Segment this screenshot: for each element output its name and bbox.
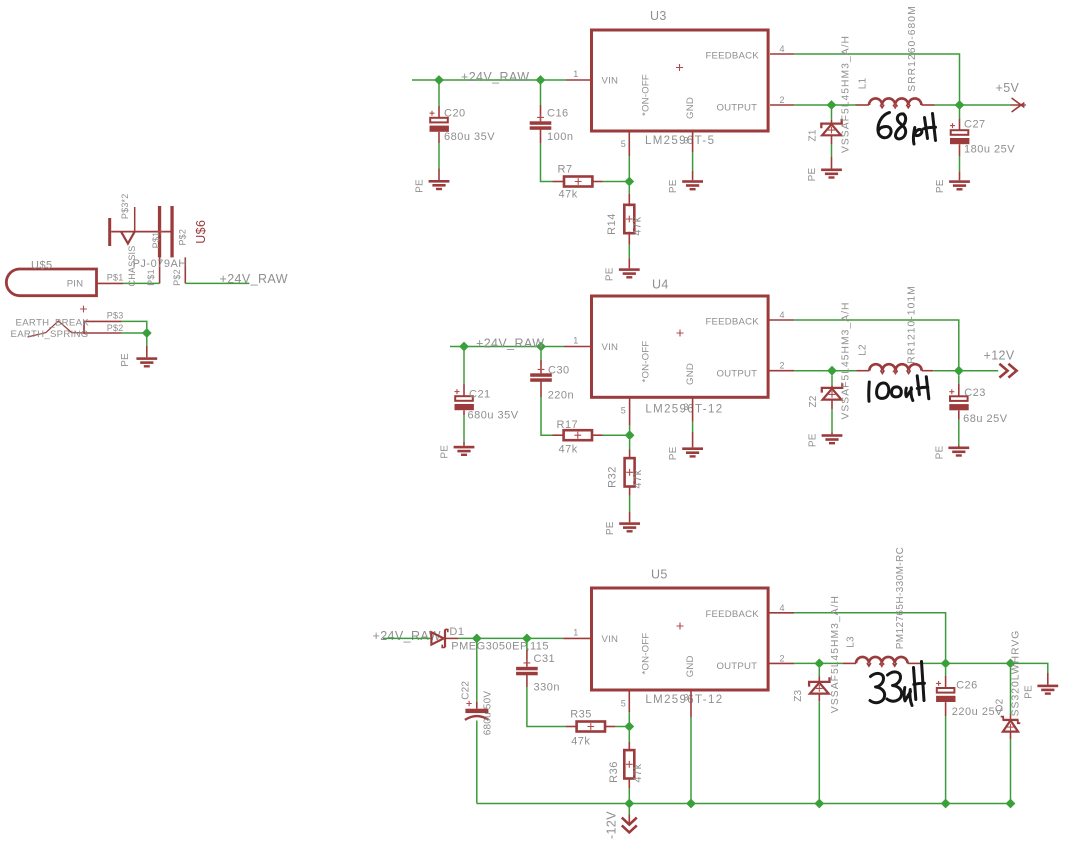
svg-text:*ON-OFF: *ON-OFF xyxy=(640,633,651,675)
op-amp U5 pin 1 VIN lead xyxy=(563,627,590,638)
wire OUTPUT net U5 xyxy=(770,653,844,663)
node junction C31/+24V xyxy=(522,634,532,644)
svg-text:R14: R14 xyxy=(606,213,618,235)
svg-text:RR1210-101M: RR1210-101M xyxy=(907,285,918,364)
capacitor C27 xyxy=(950,109,1015,180)
wire +24V_RAW input rail U3 xyxy=(412,79,566,81)
svg-text:47k: 47k xyxy=(571,735,590,747)
capacitor C20 xyxy=(430,84,496,180)
node junction D2/output xyxy=(1006,659,1016,669)
ground PE (Z2) xyxy=(807,433,842,447)
svg-text:U$6: U$6 xyxy=(194,220,208,244)
svg-text:47k: 47k xyxy=(559,189,578,201)
svg-text:P$1: P$1 xyxy=(107,272,124,282)
svg-text:L1: L1 xyxy=(858,78,869,90)
op-amp U3 pin 1 VIN lead xyxy=(566,69,590,80)
svg-text:PE: PE xyxy=(934,446,945,460)
ground PE (output right) xyxy=(1023,685,1058,699)
supply +5V arrow xyxy=(996,81,1026,112)
svg-text:U3: U3 xyxy=(650,9,667,23)
inductor L3 xyxy=(843,547,920,667)
svg-text:4: 4 xyxy=(780,310,785,320)
svg-text:EARTH_SPRING: EARTH_SPRING xyxy=(11,329,89,340)
svg-text:VIN: VIN xyxy=(602,634,619,645)
svg-text:P$2: P$2 xyxy=(107,323,124,333)
svg-text:220n: 220n xyxy=(548,390,574,402)
resistor R14 47k xyxy=(606,186,644,268)
svg-text:PE: PE xyxy=(605,267,616,281)
svg-text:C22: C22 xyxy=(460,681,471,700)
wire jack P$2 to +24V_RAW xyxy=(185,282,249,284)
wire earth P$2 xyxy=(122,332,147,334)
capacitor C23 xyxy=(949,375,1007,446)
svg-text:L2: L2 xyxy=(857,344,868,356)
node junction rail/Z3 xyxy=(814,799,824,809)
svg-text:*ON-OFF: *ON-OFF xyxy=(640,74,651,116)
capacitor C31 330n xyxy=(516,642,577,726)
node junction rail/D2 xyxy=(1006,799,1016,809)
ground PE (R32) xyxy=(605,521,640,535)
svg-text:P$1: P$1 xyxy=(151,232,161,249)
wire earth to ground xyxy=(146,333,148,357)
dc jack U$6 PJ-079AH xyxy=(108,194,208,287)
svg-text:PE: PE xyxy=(1023,685,1034,699)
svg-text:GND: GND xyxy=(685,97,696,119)
svg-text:C30: C30 xyxy=(548,365,570,377)
svg-text:P$3*2: P$3*2 xyxy=(120,194,130,220)
svg-text:P$1: P$1 xyxy=(146,269,156,286)
svg-text:47k: 47k xyxy=(559,443,578,455)
svg-text:PE: PE xyxy=(120,353,131,367)
svg-text:LM2596T-5: LM2596T-5 xyxy=(645,135,715,147)
svg-text:PIN: PIN xyxy=(67,279,84,290)
svg-text:+24V_RAW: +24V_RAW xyxy=(461,70,529,84)
resistor R7 47k xyxy=(558,164,630,201)
node junction C21/+24V_RAW xyxy=(459,342,469,352)
zener Z1 xyxy=(808,35,852,169)
ground PE (C20) xyxy=(415,179,450,193)
svg-text:+24V_RAW: +24V_RAW xyxy=(220,272,288,286)
svg-text:PE: PE xyxy=(935,179,946,193)
svg-text:+12V: +12V xyxy=(984,349,1015,363)
svg-text:+24V_RAW: +24V_RAW xyxy=(476,337,544,351)
svg-text:OUTPUT: OUTPUT xyxy=(717,369,758,380)
svg-text:PM12765H-330M-RC: PM12765H-330M-RC xyxy=(895,547,906,650)
node junction earth xyxy=(142,328,152,338)
wire FEEDBACK net U4 xyxy=(770,310,959,371)
svg-text:VIN: VIN xyxy=(602,342,619,353)
svg-text:1: 1 xyxy=(573,336,578,346)
wire +24V_RAW to D1 xyxy=(383,637,431,639)
svg-text:680u 50V: 680u 50V xyxy=(483,691,494,736)
svg-text:R32: R32 xyxy=(606,466,618,488)
wire L3 to output nodes xyxy=(920,663,1048,684)
svg-text:C31: C31 xyxy=(534,653,556,665)
svg-text:GND: GND xyxy=(685,363,696,385)
node junction R7/R14/ON-OFF xyxy=(624,177,634,187)
wire -12V bottom rail xyxy=(477,803,1011,805)
svg-text:LM2596T-12: LM2596T-12 xyxy=(645,694,723,706)
svg-text:PMEG3050EP,115: PMEG3050EP,115 xyxy=(451,641,549,653)
svg-text:C21: C21 xyxy=(469,389,491,401)
connector U$5 pin P$1 lead xyxy=(97,272,124,283)
op-amp U4 LM2596T-12 body xyxy=(592,278,769,416)
zener Z2 xyxy=(808,301,852,434)
node junction C20/+24V_RAW xyxy=(434,75,444,85)
connector U$5 PIN xyxy=(6,259,96,295)
svg-text:PJ-079AH: PJ-079AH xyxy=(133,258,187,270)
op-amp U5 pin 5 ON-OFF lead xyxy=(621,692,630,727)
svg-text:Z2: Z2 xyxy=(808,395,819,407)
svg-text:OUTPUT: OUTPUT xyxy=(717,661,758,672)
ground PE (C23) xyxy=(934,446,969,460)
svg-text:5: 5 xyxy=(621,406,626,416)
svg-text:R36: R36 xyxy=(608,761,620,783)
ground PE (U3 GND) xyxy=(668,179,703,193)
inductor L2 xyxy=(857,285,934,374)
svg-text:FEEDBACK: FEEDBACK xyxy=(706,51,760,62)
svg-text:EARTH_BREAK: EARTH_BREAK xyxy=(16,317,90,328)
svg-text:2: 2 xyxy=(780,653,785,663)
wire +24V_RAW input rail U4 xyxy=(450,346,564,348)
svg-text:LM2596T-12: LM2596T-12 xyxy=(645,404,723,416)
svg-text:PE: PE xyxy=(807,168,818,182)
svg-text:P$2: P$2 xyxy=(177,229,187,246)
svg-text:2: 2 xyxy=(780,95,785,105)
capacitor C22 680u 50V xyxy=(460,642,493,803)
node junction C30/+24V_RAW xyxy=(536,342,546,352)
resistor R17 47k xyxy=(557,419,630,456)
svg-text:PE: PE xyxy=(605,521,616,535)
wire earth P$3 xyxy=(122,321,147,333)
op-amp U5 pin 3 GND lead to -12V rail xyxy=(690,692,692,804)
svg-text:180u 25V: 180u 25V xyxy=(964,144,1015,156)
svg-text:C26: C26 xyxy=(956,680,978,692)
svg-text:47k: 47k xyxy=(632,763,644,782)
node junction C23/+12V xyxy=(954,366,964,376)
handwritten 68uH xyxy=(878,113,936,145)
supply +12V arrow xyxy=(984,349,1017,378)
svg-text:GND: GND xyxy=(685,655,696,677)
op-amp U4 pin 3 GND lead xyxy=(692,399,694,448)
svg-text:PE: PE xyxy=(668,179,679,193)
svg-text:680u 35V: 680u 35V xyxy=(444,131,495,143)
ground PE (C21) xyxy=(440,445,475,459)
node junction R35/R36/ON-OFF xyxy=(624,722,634,732)
svg-text:D2: D2 xyxy=(995,698,1006,711)
op-amp U4 pin 5 ON-OFF lead xyxy=(621,399,630,436)
svg-text:PE: PE xyxy=(440,445,451,459)
net label +24V_RAW (input) xyxy=(220,272,288,286)
svg-text:U4: U4 xyxy=(652,278,669,292)
net label +24V_RAW (U4) xyxy=(476,337,544,351)
op-amp U4 pin 1 VIN lead xyxy=(564,336,590,347)
net label +24V_RAW (U3) xyxy=(461,70,529,84)
node junction Z2/output xyxy=(827,366,837,376)
svg-text:FEEDBACK: FEEDBACK xyxy=(706,609,760,620)
svg-text:R7: R7 xyxy=(558,164,573,176)
svg-text:C23: C23 xyxy=(964,387,986,399)
handwritten 33uH xyxy=(870,662,924,706)
wire OUTPUT net U4 xyxy=(770,361,857,371)
ground PE (Z1) xyxy=(807,168,842,182)
svg-text:-12V: -12V xyxy=(605,811,619,839)
ground PE (C27) xyxy=(935,179,970,193)
node junction rail/R36 xyxy=(624,799,634,809)
svg-text:C27: C27 xyxy=(964,119,986,131)
node junction Z1/output xyxy=(827,100,837,110)
capacitor C26 220u 25V xyxy=(936,668,1003,804)
node junction rail/U5 GND xyxy=(686,799,696,809)
svg-text:VSSAF5L45HM3_A/H: VSSAF5L45HM3_A/H xyxy=(830,595,841,713)
ground PE (R14) xyxy=(605,267,640,281)
svg-text:SRR1260-680M: SRR1260-680M xyxy=(907,5,918,91)
svg-text:PE: PE xyxy=(415,179,426,193)
capacitor C21 xyxy=(455,351,519,446)
svg-text:OUTPUT: OUTPUT xyxy=(717,103,758,114)
node junction C22/+24V xyxy=(472,634,482,644)
wire FEEDBACK net U3 xyxy=(770,44,960,105)
resistor R36 47k xyxy=(608,731,644,804)
svg-text:4: 4 xyxy=(780,603,785,613)
inductor L1 xyxy=(856,5,935,109)
svg-text:U5: U5 xyxy=(651,568,668,582)
svg-text:1: 1 xyxy=(573,69,578,79)
svg-text:Z1: Z1 xyxy=(808,129,819,141)
svg-text:1: 1 xyxy=(573,627,578,637)
op-amp U3 pin 3 GND lead xyxy=(692,133,694,181)
wire U$5 to jack P$1 xyxy=(123,282,160,284)
earth contact U$5 P$3/P$2 xyxy=(11,306,124,340)
net label +24V_RAW (U5) xyxy=(373,629,441,643)
svg-text:VIN: VIN xyxy=(602,76,619,87)
svg-text:P$2: P$2 xyxy=(172,269,182,286)
svg-text:PE: PE xyxy=(668,446,679,460)
svg-text:PE: PE xyxy=(807,433,818,447)
svg-text:2: 2 xyxy=(780,361,785,371)
svg-text:L3: L3 xyxy=(846,636,857,648)
node junction R17/R32/ON-OFF xyxy=(625,430,635,440)
node junction C27/+5V xyxy=(955,100,965,110)
svg-text:+5V: +5V xyxy=(996,81,1020,95)
wire D1 to VIN U5 xyxy=(458,637,563,639)
zener Z3 xyxy=(793,595,841,804)
ground PE (U4 GND) xyxy=(668,446,703,460)
diode D2 SS320LWHRVG xyxy=(995,630,1022,804)
op-amp U3 pin 5 ON-OFF lead xyxy=(621,133,630,182)
svg-text:P$3: P$3 xyxy=(107,310,124,320)
wire OUTPUT net U3 xyxy=(770,95,856,105)
capacitor C16 xyxy=(530,84,574,182)
svg-text:68u 25V: 68u 25V xyxy=(963,413,1008,425)
svg-text:C16: C16 xyxy=(547,108,569,120)
node junction C16/+24V_RAW xyxy=(536,75,546,85)
resistor R32 47k xyxy=(606,440,644,523)
svg-text:Z3: Z3 xyxy=(793,689,804,701)
resistor R35 47k xyxy=(570,709,629,748)
wire L2 to +12V node xyxy=(933,370,998,372)
svg-text:D1: D1 xyxy=(449,626,464,638)
svg-text:5: 5 xyxy=(621,699,626,709)
handwritten 100uH xyxy=(869,376,929,402)
svg-text:VSSAF5L45HM3_A/H: VSSAF5L45HM3_A/H xyxy=(841,301,852,419)
node junction C26/output xyxy=(941,659,951,669)
op-amp U3 LM2596T-5 body xyxy=(592,9,769,147)
wire FEEDBACK net U5 xyxy=(770,603,946,664)
ground PE (earth) xyxy=(120,353,157,367)
node junction rail/C26 xyxy=(941,799,951,809)
wire L1 to +5V node xyxy=(935,104,1012,106)
svg-text:47k: 47k xyxy=(632,216,644,235)
svg-text:R35: R35 xyxy=(570,709,592,721)
svg-text:VSSAF5L45HM3_A/H: VSSAF5L45HM3_A/H xyxy=(841,35,852,153)
svg-text:C20: C20 xyxy=(444,108,466,120)
diode D1 PMEG3050EP,115 xyxy=(431,626,549,653)
node junction Z3/output xyxy=(814,659,824,669)
svg-text:4: 4 xyxy=(780,44,785,54)
svg-text:5: 5 xyxy=(621,139,626,149)
svg-text:330n: 330n xyxy=(534,682,560,694)
capacitor C30 xyxy=(530,351,574,436)
svg-text:R17: R17 xyxy=(557,419,579,431)
svg-text:47k: 47k xyxy=(632,469,644,488)
svg-text:U$5: U$5 xyxy=(31,259,53,271)
svg-text:*ON-OFF: *ON-OFF xyxy=(640,341,651,383)
svg-text:SS320LWHRVG: SS320LWHRVG xyxy=(1011,630,1022,717)
svg-text:FEEDBACK: FEEDBACK xyxy=(706,317,760,328)
supply -12V arrow xyxy=(605,804,637,840)
op-amp U5 LM2596T-12 body xyxy=(592,568,769,706)
svg-text:680u 35V: 680u 35V xyxy=(468,410,519,422)
svg-text:100n: 100n xyxy=(547,131,573,143)
